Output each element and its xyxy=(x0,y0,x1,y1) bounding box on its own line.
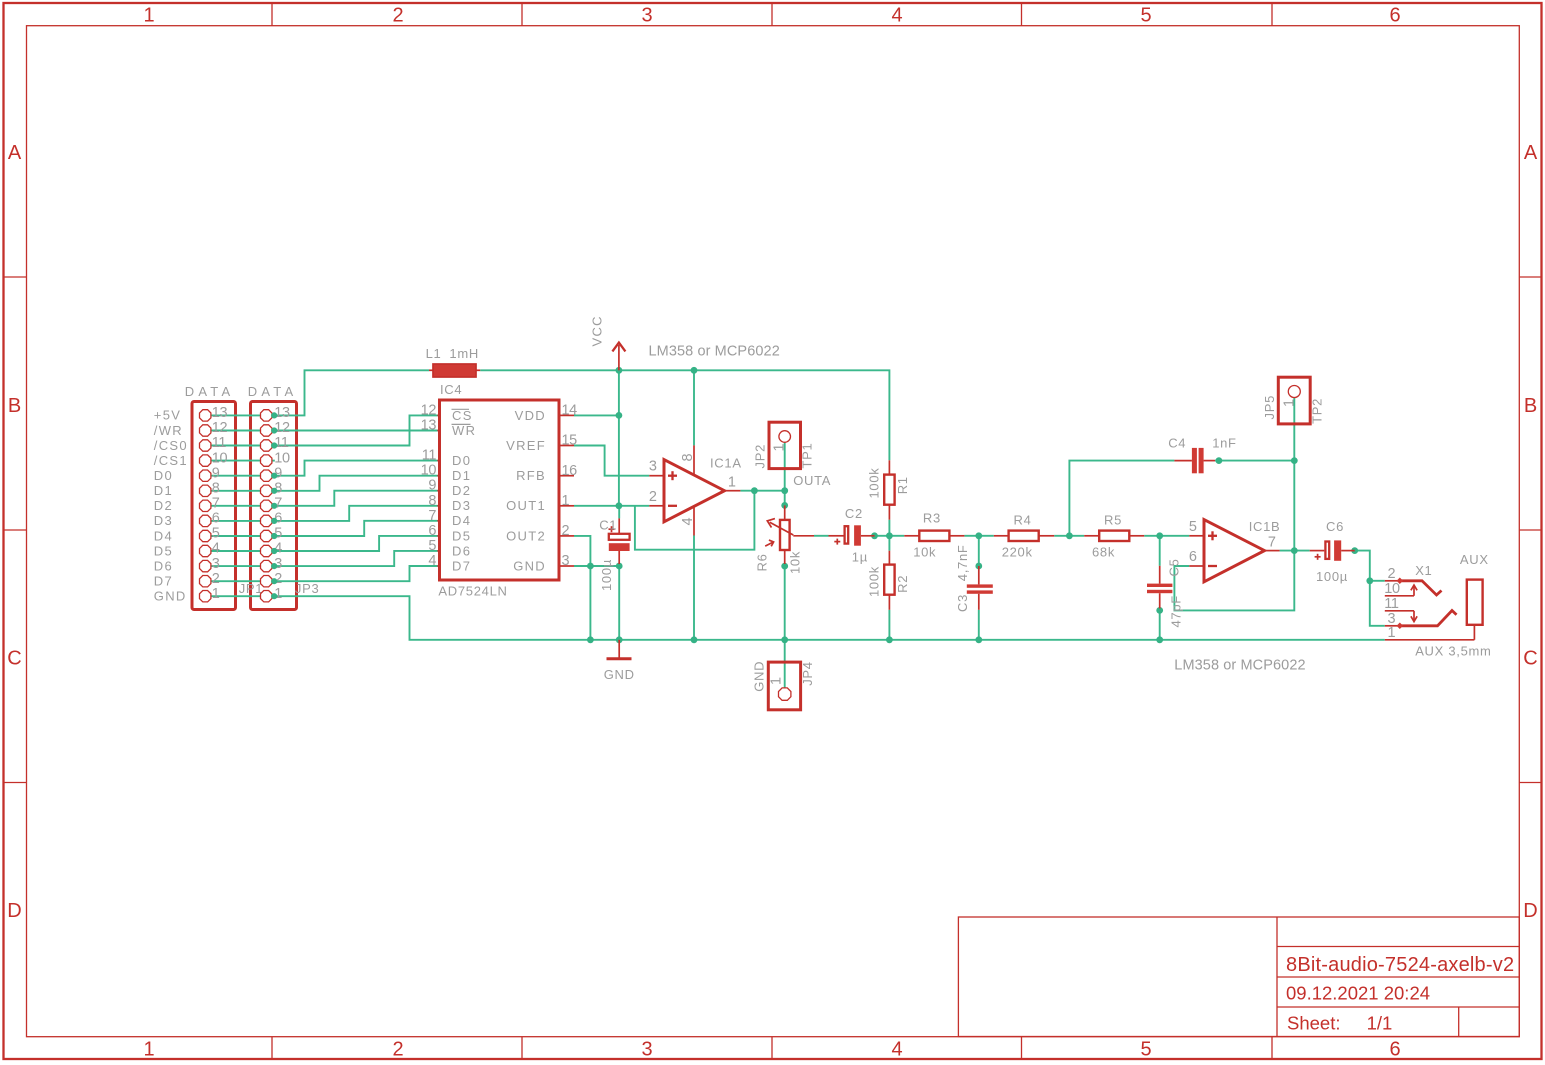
svg-text:D6: D6 xyxy=(452,543,471,558)
junction dots IC1B out xyxy=(1291,547,1358,554)
capacitor C5 xyxy=(1147,566,1172,609)
svg-text:4: 4 xyxy=(680,518,696,526)
svg-text:C5: C5 xyxy=(1166,558,1181,576)
capacitor C1 xyxy=(609,518,630,564)
svg-text:Sheet:: Sheet: xyxy=(1287,1013,1341,1034)
svg-text:100k: 100k xyxy=(867,468,882,499)
svg-text:2: 2 xyxy=(392,1039,403,1061)
title block xyxy=(958,917,1519,1037)
svg-text:IC1A: IC1A xyxy=(710,456,742,471)
svg-text:1: 1 xyxy=(1388,625,1396,641)
svg-text:4: 4 xyxy=(428,553,436,569)
svg-text:D6: D6 xyxy=(154,558,173,573)
svg-text:C: C xyxy=(7,648,21,670)
capacitor C4 xyxy=(1174,448,1215,473)
svg-text:3: 3 xyxy=(641,5,652,27)
svg-text:12: 12 xyxy=(212,420,228,436)
svg-text:IC4: IC4 xyxy=(440,382,462,397)
svg-text:15: 15 xyxy=(562,433,578,449)
capacitor C3 xyxy=(967,566,993,610)
resistor R2 xyxy=(884,551,894,610)
svg-text:JP1: JP1 xyxy=(239,581,264,596)
svg-text:OUT1: OUT1 xyxy=(506,498,546,513)
resistor R3 xyxy=(904,531,964,541)
wire TP2 vertical xyxy=(1293,398,1295,551)
svg-text:LM358 or MCP6022: LM358 or MCP6022 xyxy=(649,344,780,360)
svg-text:/WR: /WR xyxy=(154,423,183,438)
svg-text:GND: GND xyxy=(604,667,635,682)
wire D3 JP1-JP3 xyxy=(211,520,260,522)
svg-text:JP3: JP3 xyxy=(295,581,320,596)
svg-text:R3: R3 xyxy=(923,511,941,526)
svg-text:12: 12 xyxy=(421,402,437,418)
svg-text:1mH: 1mH xyxy=(449,346,479,361)
svg-text:2: 2 xyxy=(562,523,570,539)
svg-text:D5: D5 xyxy=(154,543,173,558)
wire R4 to R5 node xyxy=(1054,535,1084,537)
svg-text:6: 6 xyxy=(1389,1039,1400,1061)
svg-text:14: 14 xyxy=(562,403,578,419)
potentiometer R6 xyxy=(765,505,814,564)
wire R3 to C3 node xyxy=(964,535,978,537)
svg-text:2: 2 xyxy=(1388,566,1396,582)
wire R1 bottom xyxy=(888,520,890,536)
svg-text:X1: X1 xyxy=(1415,563,1432,578)
svg-text:R6: R6 xyxy=(755,553,770,571)
svg-text:10k: 10k xyxy=(913,545,936,560)
junction dots R5/C5 node xyxy=(1156,532,1163,613)
wire R2 top xyxy=(888,536,890,551)
junction dots OUTA node xyxy=(751,487,788,508)
wire D5 to IC4 xyxy=(272,536,438,551)
X1 pin numbers xyxy=(1384,566,1400,641)
svg-text:7: 7 xyxy=(428,508,436,524)
wire IC4 VREF to IC1A +in xyxy=(574,446,649,476)
connector JP1 pin numbers xyxy=(212,405,228,602)
connector JP3 box xyxy=(251,402,297,610)
svg-text:IC1B: IC1B xyxy=(1249,519,1281,534)
wire C2 to R1/R2 node xyxy=(875,535,890,537)
IC4 left pin stubs xyxy=(437,415,439,566)
svg-text:C6: C6 xyxy=(1326,519,1344,534)
svg-text:9: 9 xyxy=(428,478,436,494)
IC1A pin numbers xyxy=(649,454,736,526)
wire IC1B out to C6 xyxy=(1280,550,1310,552)
wire D7 to IC4 xyxy=(272,566,438,581)
net labels left of JP1 xyxy=(154,408,188,604)
svg-text:5: 5 xyxy=(1140,1039,1151,1061)
svg-text:11: 11 xyxy=(274,435,289,451)
wire IC4 OUT2 elbow xyxy=(574,536,590,566)
wire C4 to TP2 node xyxy=(1215,460,1294,462)
svg-text:8: 8 xyxy=(428,493,436,509)
wire /CS1 stub xyxy=(272,460,275,462)
svg-text:1: 1 xyxy=(143,5,154,27)
svg-text:3: 3 xyxy=(641,1039,652,1061)
IC4 left pin numbers xyxy=(421,402,437,569)
svg-text:3: 3 xyxy=(562,553,570,569)
svg-text:1/1: 1/1 xyxy=(1367,1013,1393,1034)
wire /CS1 JP1-JP3 xyxy=(211,460,260,462)
wire /CS0 to IC4 CS xyxy=(272,415,438,445)
sheet text xyxy=(1287,1013,1392,1034)
wire D0 to IC4 xyxy=(272,461,438,476)
svg-text:4: 4 xyxy=(891,5,902,27)
wire D4 to IC4 xyxy=(272,521,438,536)
svg-text:D7: D7 xyxy=(452,558,471,573)
wire C3 bottom to bus xyxy=(978,610,980,640)
svg-text:7: 7 xyxy=(1268,535,1276,551)
wire OUT2/GND to bus xyxy=(589,566,591,640)
wire R2 bottom to bus xyxy=(888,610,890,640)
svg-text:OUT2: OUT2 xyxy=(506,528,546,543)
svg-text:5: 5 xyxy=(1189,519,1197,535)
svg-text:GND: GND xyxy=(751,661,766,692)
junction dots VCC rail xyxy=(616,367,698,374)
wire D0 JP1-JP3 xyxy=(211,475,260,477)
wire TP1 to R6 xyxy=(784,442,786,506)
svg-text:1nF: 1nF xyxy=(1212,436,1237,451)
svg-text:5: 5 xyxy=(212,526,220,542)
wire R6 bottom to bus xyxy=(784,566,786,640)
IC4 right pin numbers xyxy=(562,403,578,570)
svg-text:1: 1 xyxy=(768,677,784,685)
svg-text:LM358 or MCP6022: LM358 or MCP6022 xyxy=(1174,658,1305,674)
svg-text:47pF: 47pF xyxy=(1169,595,1184,627)
svg-text:JP5: JP5 xyxy=(1262,395,1277,420)
junction dots C3 node xyxy=(975,532,982,569)
wire node to R3 xyxy=(889,535,904,537)
wire C3 node to R4 xyxy=(979,535,994,537)
svg-text:VCC: VCC xyxy=(590,315,605,346)
ground symbol GND xyxy=(607,640,632,659)
svg-text:D7: D7 xyxy=(154,574,173,589)
svg-text:9: 9 xyxy=(212,465,220,481)
svg-text:2: 2 xyxy=(212,571,220,587)
svg-text:GND: GND xyxy=(154,589,187,604)
svg-text:+5V: +5V xyxy=(154,408,181,423)
svg-text:AUX 3,5mm: AUX 3,5mm xyxy=(1415,644,1491,659)
svg-text:D3: D3 xyxy=(452,498,471,513)
svg-text:220k: 220k xyxy=(1002,545,1033,560)
svg-text:CS: CS xyxy=(452,408,473,423)
svg-text:D1: D1 xyxy=(452,468,471,483)
wire IC1A out to OUTA xyxy=(740,490,784,492)
junction dot R4/R5 node xyxy=(1066,532,1073,539)
wire D1 to IC4 xyxy=(272,476,438,491)
svg-text:6: 6 xyxy=(428,523,436,539)
svg-text:11: 11 xyxy=(212,435,227,451)
svg-text:A: A xyxy=(8,142,22,164)
junction dots C4 row xyxy=(1216,457,1298,464)
VCC supply symbol xyxy=(612,343,625,371)
svg-text:GND: GND xyxy=(513,558,546,573)
svg-text:10k: 10k xyxy=(788,551,803,574)
svg-text:C4: C4 xyxy=(1168,436,1186,451)
connector JP1 box xyxy=(192,402,236,610)
svg-text:8: 8 xyxy=(212,481,220,497)
svg-text:6: 6 xyxy=(212,511,220,527)
svg-text:JP2: JP2 xyxy=(753,444,768,469)
wire +5V to L1/VCC rail xyxy=(272,370,429,415)
svg-text:TP2: TP2 xyxy=(1310,398,1325,424)
svg-text:100µ: 100µ xyxy=(599,559,614,591)
svg-text:3: 3 xyxy=(649,459,657,475)
svg-text:D2: D2 xyxy=(154,498,173,513)
svg-text:C3: C3 xyxy=(955,594,970,612)
svg-text:DATA: DATA xyxy=(185,384,235,399)
svg-text:13: 13 xyxy=(421,418,437,434)
svg-text:11: 11 xyxy=(1384,596,1399,612)
svg-text:D0: D0 xyxy=(154,468,173,483)
wire VCC vertical xyxy=(618,370,620,506)
svg-text:1: 1 xyxy=(1282,399,1298,407)
svg-text:1: 1 xyxy=(772,444,788,452)
svg-text:R4: R4 xyxy=(1014,513,1032,528)
svg-text:JP4: JP4 xyxy=(800,661,815,686)
svg-text:C2: C2 xyxy=(845,506,863,521)
wire IC4 GND row xyxy=(574,565,619,567)
svg-text:D3: D3 xyxy=(154,513,173,528)
wire C5 bottom to bus xyxy=(1159,610,1161,639)
connector JP4 GND xyxy=(768,662,800,710)
wire D6 JP1-JP3 xyxy=(211,565,260,567)
op-amp IC1B xyxy=(1189,520,1279,582)
wire /CS0 JP1-JP3 xyxy=(211,445,260,447)
wire IC4 OUT1 to IC1A -in xyxy=(574,505,649,507)
IC4 AD7524LN box xyxy=(440,400,560,580)
svg-text:09.12.2021 20:24: 09.12.2021 20:24 xyxy=(1286,983,1430,1004)
junction dot X1 branch xyxy=(1366,577,1373,584)
capacitor C2 xyxy=(829,525,875,545)
svg-text:10: 10 xyxy=(212,450,228,466)
test point JP5/TP2 xyxy=(1278,377,1310,424)
svg-text:5: 5 xyxy=(1140,5,1151,27)
junction dots bottom bus xyxy=(587,636,1163,643)
junction dot R6 bottom xyxy=(781,563,788,570)
wire GND JP1-JP3 xyxy=(211,595,260,597)
svg-text:16: 16 xyxy=(562,463,578,479)
IC4 right pin stubs xyxy=(559,415,574,566)
connector X1 audio jack xyxy=(1385,578,1483,640)
svg-text:1: 1 xyxy=(728,475,736,491)
svg-text:L1: L1 xyxy=(426,346,442,361)
svg-text:/CS1: /CS1 xyxy=(154,453,188,468)
svg-text:AUX: AUX xyxy=(1460,552,1489,567)
resistor R4 xyxy=(994,531,1054,541)
wire IC1B -in feedback xyxy=(1174,551,1294,611)
svg-text:11: 11 xyxy=(422,448,437,464)
row letters xyxy=(7,142,1538,922)
svg-text:2: 2 xyxy=(649,489,657,505)
wire X1 pin2 branch xyxy=(1370,580,1385,582)
connector JP3 pins xyxy=(261,410,272,602)
wire /WR JP1-JP3 xyxy=(211,430,260,432)
svg-text:10: 10 xyxy=(1384,581,1400,597)
svg-text:1: 1 xyxy=(562,493,570,509)
op-amp IC1A xyxy=(649,445,740,535)
svg-text:TP1: TP1 xyxy=(800,443,815,469)
svg-text:5: 5 xyxy=(428,538,436,554)
svg-text:/CS0: /CS0 xyxy=(154,438,188,453)
svg-text:D4: D4 xyxy=(452,513,471,528)
wire IC4 VDD to VCC xyxy=(574,414,619,416)
wire D7 JP1-JP3 xyxy=(211,580,260,582)
wire +5V JP1-JP3 xyxy=(211,414,260,416)
wire D5 JP1-JP3 xyxy=(211,550,260,552)
junction dot VDD xyxy=(616,412,623,419)
wire R5 to IC1B +in xyxy=(1144,535,1189,537)
wire D2 JP1-JP3 xyxy=(211,505,260,507)
svg-text:C1: C1 xyxy=(599,518,617,533)
svg-text:B: B xyxy=(1524,395,1537,417)
wire IC1A feedback loop xyxy=(635,491,755,550)
svg-text:2: 2 xyxy=(392,5,403,27)
svg-text:RFB: RFB xyxy=(516,468,546,483)
IC1B pin numbers xyxy=(1189,519,1276,565)
wire GND bottom bus xyxy=(590,639,1384,641)
wire C1 bottom to bus xyxy=(618,566,620,640)
svg-text:D0: D0 xyxy=(452,453,471,468)
wire /WR to IC4 WR xyxy=(272,430,438,432)
inductor L1 xyxy=(429,364,480,377)
svg-text:7: 7 xyxy=(212,496,220,512)
svg-text:D1: D1 xyxy=(154,483,173,498)
svg-text:8: 8 xyxy=(680,454,696,462)
wire R5 node down to C5 xyxy=(1159,536,1161,566)
wire D6 to IC4 xyxy=(272,551,438,566)
svg-text:3: 3 xyxy=(212,556,220,572)
svg-text:12: 12 xyxy=(274,420,290,436)
svg-text:D: D xyxy=(7,900,21,922)
svg-text:WR: WR xyxy=(452,423,476,438)
svg-text:4: 4 xyxy=(891,1039,902,1061)
resistor R1 xyxy=(884,460,894,519)
svg-text:B: B xyxy=(8,395,21,417)
svg-text:D5: D5 xyxy=(452,528,471,543)
svg-text:D2: D2 xyxy=(452,483,471,498)
svg-text:R2: R2 xyxy=(895,575,910,593)
wire bus to JP4 xyxy=(784,640,786,688)
svg-text:6: 6 xyxy=(1189,549,1197,565)
svg-text:AD7524LN: AD7524LN xyxy=(438,584,507,599)
svg-text:68k: 68k xyxy=(1092,545,1115,560)
wire VCC rail L1 to R1 xyxy=(480,370,889,460)
svg-text:VDD: VDD xyxy=(515,408,546,423)
resistor R5 xyxy=(1084,531,1144,541)
svg-text:13: 13 xyxy=(212,405,228,421)
wire IC1A power pin8 xyxy=(693,370,695,445)
wire C6 to X1 xyxy=(1355,551,1385,626)
test point JP2/TP1 xyxy=(769,422,801,468)
svg-text:D4: D4 xyxy=(154,528,173,543)
svg-text:100k: 100k xyxy=(867,566,882,597)
wire node up to C4 xyxy=(1069,461,1174,536)
svg-text:A: A xyxy=(1524,142,1538,164)
svg-text:10: 10 xyxy=(421,463,437,479)
junction dots JP3 pins xyxy=(271,412,277,599)
wire D3 to IC4 xyxy=(272,506,438,521)
svg-text:13: 13 xyxy=(274,405,290,421)
svg-text:6: 6 xyxy=(1389,5,1400,27)
junction dots C2/R1 node xyxy=(871,532,893,539)
svg-text:4,7nF: 4,7nF xyxy=(955,544,970,581)
wire D1 JP1-JP3 xyxy=(211,490,260,492)
capacitor C6 xyxy=(1310,540,1355,560)
svg-text:C: C xyxy=(1523,648,1537,670)
svg-text:100µ: 100µ xyxy=(1316,569,1348,584)
svg-text:R5: R5 xyxy=(1104,513,1122,528)
wire D4 JP1-JP3 xyxy=(211,535,260,537)
connector JP3 pin numbers xyxy=(274,405,290,602)
svg-text:8Bit-audio-7524-axelb-v2: 8Bit-audio-7524-axelb-v2 xyxy=(1286,954,1514,976)
svg-text:OUTA: OUTA xyxy=(793,473,831,488)
wire GND to bottom bus xyxy=(272,596,590,640)
junction dot OUT1/C1 xyxy=(616,502,623,509)
svg-text:1: 1 xyxy=(212,586,220,602)
wire IC1A power pin4 to bus xyxy=(693,536,695,640)
connector JP1 pins xyxy=(200,410,211,602)
wire C3 top xyxy=(978,536,980,566)
wire C1 top xyxy=(618,506,620,519)
svg-text:1µ: 1µ xyxy=(852,550,868,565)
wire D2 to IC4 xyxy=(272,491,438,506)
svg-text:R1: R1 xyxy=(895,476,910,494)
svg-text:1: 1 xyxy=(143,1039,154,1061)
IC4 pin names xyxy=(452,408,547,574)
wire R6 wiper to C2 xyxy=(814,535,829,537)
svg-text:4: 4 xyxy=(212,541,220,557)
junction dots GND row xyxy=(587,563,623,570)
svg-text:DATA: DATA xyxy=(248,384,298,399)
svg-text:VREF: VREF xyxy=(506,438,546,453)
svg-text:D: D xyxy=(1523,900,1537,922)
svg-text:10: 10 xyxy=(274,450,290,466)
